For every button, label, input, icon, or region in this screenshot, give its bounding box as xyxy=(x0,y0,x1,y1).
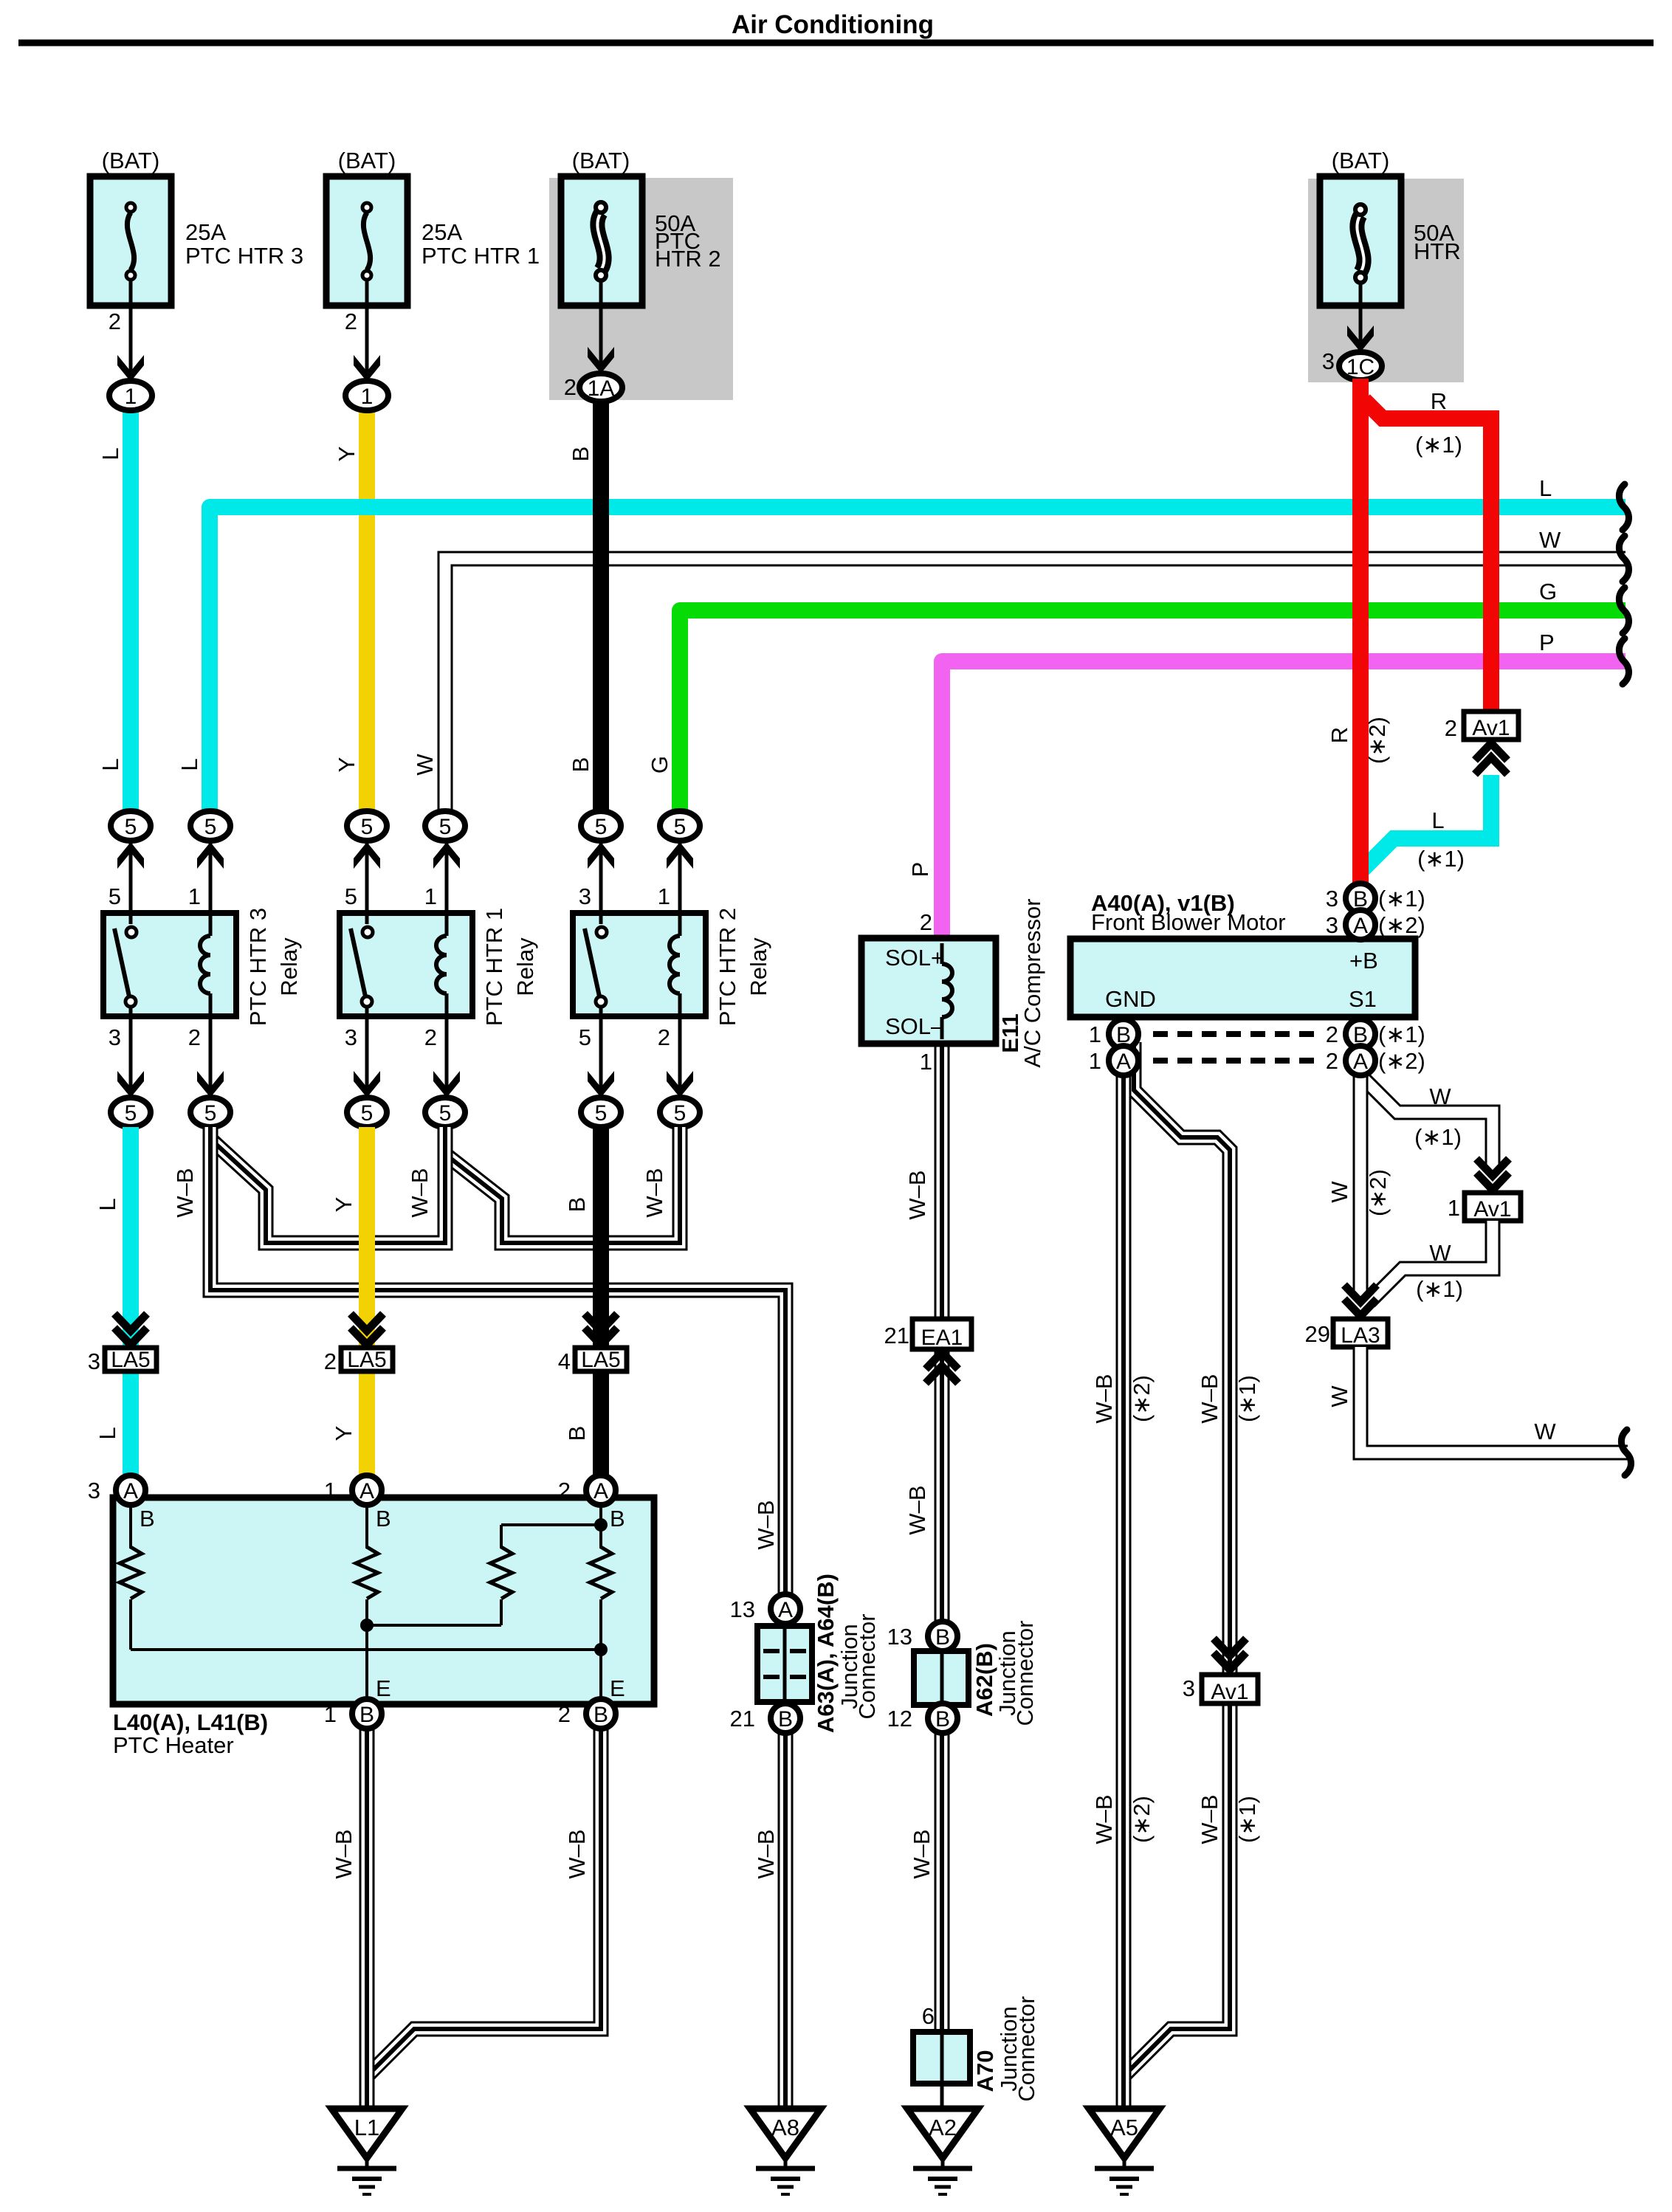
svg-text:W–B: W–B xyxy=(331,1829,357,1878)
dashed link GND A to S1 A xyxy=(1153,1058,1320,1064)
junction connector A62(B) xyxy=(914,1651,969,1705)
svg-text:B: B xyxy=(778,1707,793,1732)
svg-text:(∗1): (∗1) xyxy=(1414,1124,1462,1150)
svg-text:1: 1 xyxy=(424,883,437,909)
svg-text:(∗2): (∗2) xyxy=(1364,717,1390,764)
PTC heater resistor R3 xyxy=(490,1547,512,1599)
svg-text:W–B: W–B xyxy=(1091,1374,1117,1423)
connector 1 Av1 xyxy=(1476,1159,1509,1176)
svg-text:PTC HTR 3: PTC HTR 3 xyxy=(185,243,303,269)
svg-text:5: 5 xyxy=(125,1101,137,1126)
svg-text:21: 21 xyxy=(884,1323,909,1348)
svg-text:1: 1 xyxy=(1089,1021,1101,1047)
svg-text:(BAT): (BAT) xyxy=(1332,148,1390,173)
svg-text:W–B: W–B xyxy=(909,1829,935,1878)
svg-text:L: L xyxy=(94,1198,120,1210)
svg-text:2: 2 xyxy=(564,374,577,400)
svg-text:L1: L1 xyxy=(354,2115,379,2140)
junction connector A63(A), A64(B) xyxy=(757,1626,812,1702)
svg-text:A2: A2 xyxy=(929,2115,957,2140)
svg-text:3: 3 xyxy=(1326,912,1338,938)
svg-text:(∗2): (∗2) xyxy=(1378,1048,1425,1074)
svg-text:5: 5 xyxy=(439,1101,452,1126)
svg-text:3: 3 xyxy=(579,883,591,909)
svg-text:3: 3 xyxy=(109,1024,121,1050)
connector 5 above relay column x=814 xyxy=(581,811,621,841)
svg-text:E: E xyxy=(376,1675,391,1701)
svg-text:5: 5 xyxy=(579,1024,591,1050)
svg-text:6: 6 xyxy=(922,2003,935,2029)
svg-text:5: 5 xyxy=(361,815,374,839)
svg-text:5: 5 xyxy=(674,815,687,839)
svg-text:(∗1): (∗1) xyxy=(1415,432,1462,458)
svg-text:A: A xyxy=(778,1598,793,1622)
svg-text:B: B xyxy=(935,1625,950,1650)
svg-text:W: W xyxy=(1327,1385,1352,1408)
svg-text:PTC HTR 1: PTC HTR 1 xyxy=(422,243,540,269)
svg-text:5: 5 xyxy=(595,1101,608,1126)
svg-text:13: 13 xyxy=(730,1596,755,1622)
svg-text:2: 2 xyxy=(345,309,357,334)
connector 4 LA5 xyxy=(585,1314,617,1331)
svg-text:2: 2 xyxy=(558,1478,571,1503)
connector 1 below fuse 25A PTC HTR 1 xyxy=(345,381,388,410)
wire: white W bus horizontal with corner down to relay PTC HTR 1 pin1 column xyxy=(445,559,1625,815)
svg-text:W–B: W–B xyxy=(564,1829,590,1878)
ground A2 xyxy=(907,2109,978,2158)
svg-text:(∗1): (∗1) xyxy=(1417,846,1465,872)
fuse 25A PTC HTR 3 xyxy=(90,148,303,306)
svg-text:(BAT): (BAT) xyxy=(572,148,630,173)
ground L1 xyxy=(331,2109,402,2158)
svg-text:W: W xyxy=(1429,1083,1451,1109)
svg-text:A: A xyxy=(1353,1050,1368,1074)
svg-text:5: 5 xyxy=(345,883,357,909)
wire: cyan L vertical from fuse PTC HTR 3 down to relay row xyxy=(123,407,139,815)
svg-text:P: P xyxy=(1539,630,1555,655)
gray panel behind 50A HTR fuse xyxy=(1308,179,1464,382)
svg-text:2: 2 xyxy=(324,1348,337,1374)
svg-text:W–B: W–B xyxy=(753,1500,779,1549)
svg-text:5: 5 xyxy=(439,815,452,839)
svg-text:(BAT): (BAT) xyxy=(338,148,396,173)
svg-text:SOL–: SOL– xyxy=(885,1013,944,1039)
connector 5 above relay column x=603 xyxy=(425,811,465,841)
svg-text:5: 5 xyxy=(125,815,137,839)
wire: W-B from PTC heater pin 1B to ground L1 xyxy=(359,1729,375,2109)
front blower motor A40(A), v1(B) box xyxy=(1070,939,1415,1017)
wire: black B from relay2 to PTC heater pin 2A xyxy=(593,1127,609,1480)
svg-text:A70: A70 xyxy=(972,2050,998,2092)
svg-text:2: 2 xyxy=(424,1024,437,1050)
svg-text:(∗1): (∗1) xyxy=(1378,886,1425,912)
connector 5 above relay column x=285 xyxy=(190,811,230,841)
svg-text:W–B: W–B xyxy=(753,1829,779,1878)
svg-text:W: W xyxy=(1429,1240,1451,1266)
wire: cyan L from relay3 to PTC heater pin 3A xyxy=(123,1127,139,1480)
wire: W-B from relay PTC HTR 3 pin2 down and right to junction A63 xyxy=(210,1127,785,1613)
svg-text:3: 3 xyxy=(1183,1675,1195,1701)
connector 1A below fuse 50A PTC HTR 2 xyxy=(579,373,622,402)
wire: W (*1) from blower S1 pin 2B to Av1 pin1 xyxy=(1364,1079,1493,1174)
svg-text:3: 3 xyxy=(88,1478,100,1503)
svg-text:B: B xyxy=(359,1703,374,1727)
gray panel behind 50A PTC HTR 2 fuse xyxy=(549,178,733,400)
svg-text:A62(B): A62(B) xyxy=(971,1643,997,1717)
connector 5 above relay column x=497 xyxy=(347,811,387,841)
PTC heater resistor R4 xyxy=(590,1547,612,1599)
svg-text:L: L xyxy=(94,1427,120,1439)
svg-text:PTC HTR 3: PTC HTR 3 xyxy=(245,908,271,1026)
wire: cyan L bus horizontal with corner down to relay PTC HTR 3 pin1 column xyxy=(210,507,1625,815)
svg-text:13: 13 xyxy=(887,1624,912,1650)
connector 5 below relay column x=603 xyxy=(425,1098,465,1127)
svg-text:Y: Y xyxy=(331,1197,357,1213)
svg-text:W: W xyxy=(1539,527,1561,553)
svg-text:1A: 1A xyxy=(588,376,615,401)
svg-text:25A: 25A xyxy=(422,219,462,245)
A/C compressor E11 box xyxy=(861,938,996,1044)
svg-text:G: G xyxy=(1539,579,1557,604)
wire: W-B from relay PTC HTR 1 pin2 to relay3 coil column xyxy=(213,1127,445,1243)
connector 2 Av1 (top right) xyxy=(1475,757,1507,774)
connector 21 EA1 xyxy=(912,1319,971,1349)
svg-text:A: A xyxy=(594,1479,608,1503)
svg-text:W–B: W–B xyxy=(1197,1794,1222,1844)
connector 5 above relay column x=177 xyxy=(111,811,151,841)
svg-text:Relay: Relay xyxy=(512,937,538,996)
svg-text:Air Conditioning: Air Conditioning xyxy=(732,10,934,39)
svg-text:2: 2 xyxy=(1326,1048,1338,1074)
svg-text:W: W xyxy=(412,754,438,776)
svg-text:25A: 25A xyxy=(185,219,226,245)
svg-text:LA5: LA5 xyxy=(347,1348,386,1372)
wire from fuse 25A PTC HTR 1 to connector xyxy=(365,280,369,382)
wire: W (*2) from blower S1 pin 2A to LA3 xyxy=(1353,1074,1369,1299)
svg-text:Y: Y xyxy=(331,1426,357,1441)
svg-text:E: E xyxy=(610,1675,625,1701)
wire: W-B from junction A63 to ground A8 xyxy=(778,1705,794,2109)
svg-text:L40(A), L41(B): L40(A), L41(B) xyxy=(113,1709,268,1735)
svg-text:B: B xyxy=(568,447,594,462)
fuse 25A PTC HTR 1 xyxy=(326,148,540,306)
svg-text:A: A xyxy=(359,1479,374,1503)
svg-text:2: 2 xyxy=(558,1701,571,1727)
svg-text:G: G xyxy=(647,756,672,773)
wire: W-B (*2) from blower GND pin 1A to ground A5 xyxy=(1116,1074,1132,2109)
svg-text:(∗2): (∗2) xyxy=(1378,912,1425,938)
arrows at relay PTC HTR 3 pins xyxy=(117,842,144,869)
wire: yellow Y from relay1 to PTC heater pin 1A xyxy=(359,1127,375,1480)
svg-text:B: B xyxy=(140,1506,155,1531)
break squiggle on white W bus xyxy=(1619,536,1628,582)
svg-text:12: 12 xyxy=(887,1706,912,1732)
svg-text:Av1: Av1 xyxy=(1473,1197,1511,1222)
connector 5 below relay column x=814 xyxy=(581,1098,621,1127)
svg-text:A: A xyxy=(1353,914,1368,938)
svg-text:5: 5 xyxy=(361,1101,374,1126)
svg-text:1: 1 xyxy=(1089,1048,1101,1074)
svg-text:S1: S1 xyxy=(1349,986,1377,1012)
svg-text:W: W xyxy=(1327,1181,1352,1203)
svg-text:Front Blower Motor: Front Blower Motor xyxy=(1091,909,1286,935)
wire: cyan L (*1) from Av1 pin2 joining red wire xyxy=(1363,775,1491,869)
svg-text:LA5: LA5 xyxy=(581,1348,620,1372)
svg-text:W–B: W–B xyxy=(1091,1794,1117,1844)
svg-text:Relay: Relay xyxy=(276,937,302,996)
svg-text:A8: A8 xyxy=(771,2115,799,2140)
wire: magenta P bus horizontal with corner down to A/C compressor SOL+ xyxy=(942,661,1625,941)
svg-text:LA3: LA3 xyxy=(1341,1323,1380,1348)
wire: black B vertical from fuse PTC HTR 2 down to relay row xyxy=(593,399,609,815)
arrows at relay PTC HTR 2 pins xyxy=(588,842,614,869)
svg-text:2: 2 xyxy=(109,309,121,334)
connector 5 below relay column x=921 xyxy=(660,1098,700,1127)
break squiggle on magenta P bus xyxy=(1619,638,1628,684)
svg-text:L: L xyxy=(176,758,202,771)
svg-text:(∗2): (∗2) xyxy=(1129,1375,1155,1422)
svg-text:5: 5 xyxy=(109,883,121,909)
dashed link GND B to S1 B xyxy=(1153,1031,1320,1037)
relay PTC HTR 2 xyxy=(573,842,706,1098)
svg-text:Connector: Connector xyxy=(1012,1620,1038,1726)
svg-text:1: 1 xyxy=(1448,1195,1460,1221)
wire from fuse 50A PTC HTR 2 to connector xyxy=(599,280,603,373)
connector 5 below relay column x=177 xyxy=(111,1098,151,1127)
wire: W (*1) from Av1 pin1 back to S1 wire xyxy=(1369,1221,1493,1302)
connector 5 below relay column x=285 xyxy=(190,1098,230,1127)
PTC heater internal wiring xyxy=(131,1505,608,1704)
svg-text:4: 4 xyxy=(558,1348,571,1374)
svg-text:B: B xyxy=(594,1703,608,1727)
svg-text:(∗1): (∗1) xyxy=(1378,1021,1425,1047)
svg-text:+B: +B xyxy=(1349,948,1378,974)
wire: red R (*1) branch from 1C to Av1 pin2 xyxy=(1364,400,1491,720)
connector 3 LA5 xyxy=(114,1314,147,1331)
svg-text:3: 3 xyxy=(1326,886,1338,912)
svg-text:Y: Y xyxy=(334,757,359,773)
connector 3 Av1 xyxy=(1214,1639,1246,1655)
svg-text:(BAT): (BAT) xyxy=(102,148,160,173)
connector 1C below fuse 50A HTR xyxy=(1339,352,1382,380)
svg-text:Y: Y xyxy=(334,447,359,462)
svg-text:L: L xyxy=(1431,807,1444,833)
svg-text:SOL+: SOL+ xyxy=(885,945,944,971)
svg-text:3: 3 xyxy=(1322,348,1335,374)
svg-text:A5: A5 xyxy=(1110,2115,1138,2140)
svg-text:3: 3 xyxy=(345,1024,357,1050)
svg-text:W: W xyxy=(1534,1419,1556,1444)
break squiggle on bottom W wire xyxy=(1621,1430,1631,1475)
svg-text:W–B: W–B xyxy=(1197,1374,1222,1423)
svg-text:PTC HTR 2: PTC HTR 2 xyxy=(715,908,740,1026)
svg-text:GND: GND xyxy=(1105,986,1156,1012)
svg-text:W–B: W–B xyxy=(172,1168,198,1217)
wire: W-B from relay PTC HTR 2 pin2 to relay1 coil column xyxy=(447,1127,680,1243)
fuse 50A HTR xyxy=(1320,148,1461,306)
svg-text:1: 1 xyxy=(920,1049,932,1075)
svg-text:1: 1 xyxy=(324,1701,337,1727)
svg-text:1C: 1C xyxy=(1346,355,1375,379)
svg-text:(∗2): (∗2) xyxy=(1129,1796,1155,1843)
svg-text:Relay: Relay xyxy=(746,937,771,996)
wire: W-B from PTC heater pin 2B jog left to ground L1 xyxy=(367,1729,601,2076)
svg-text:5: 5 xyxy=(204,815,217,839)
break squiggle on cyan L bus xyxy=(1619,484,1628,530)
wire: W-B from A/C compressor SOL- to ground A2 xyxy=(935,1041,950,2058)
relay PTC HTR 3 xyxy=(103,842,236,1098)
relay PTC HTR 1 xyxy=(340,842,472,1098)
ground A5 xyxy=(1089,2109,1160,2158)
svg-text:2: 2 xyxy=(1326,1021,1338,1047)
fuse 50A PTC HTR 2 xyxy=(561,148,721,306)
svg-text:(∗1): (∗1) xyxy=(1416,1276,1463,1302)
connector 5 above relay column x=921 xyxy=(660,811,700,841)
svg-text:HTR: HTR xyxy=(1414,238,1461,264)
svg-text:L: L xyxy=(97,758,123,771)
svg-text:B: B xyxy=(564,1426,590,1441)
svg-text:L: L xyxy=(97,447,123,460)
svg-text:(∗1): (∗1) xyxy=(1234,1796,1260,1843)
svg-text:LA5: LA5 xyxy=(111,1348,150,1372)
svg-text:3: 3 xyxy=(88,1348,100,1374)
svg-text:Av1: Av1 xyxy=(1472,716,1510,740)
wire: W from LA3 to right edge xyxy=(1360,1347,1628,1453)
svg-text:2: 2 xyxy=(188,1024,201,1050)
svg-text:1: 1 xyxy=(658,883,670,909)
svg-text:1: 1 xyxy=(188,883,201,909)
svg-text:21: 21 xyxy=(730,1706,755,1732)
connector 29 LA3 xyxy=(1344,1285,1377,1302)
PTC heater L40(A), L41(B) box xyxy=(113,1498,654,1704)
svg-text:A63(A), A64(B): A63(A), A64(B) xyxy=(813,1574,839,1733)
svg-text:(∗1): (∗1) xyxy=(1234,1375,1260,1422)
svg-text:Av1: Av1 xyxy=(1211,1680,1248,1704)
svg-text:W–B: W–B xyxy=(904,1170,930,1219)
svg-text:PTC HTR 1: PTC HTR 1 xyxy=(481,908,507,1026)
svg-text:(∗2): (∗2) xyxy=(1365,1169,1391,1216)
svg-text:1: 1 xyxy=(324,1478,337,1503)
ground A8 xyxy=(750,2109,821,2158)
wire: red R (*2) vertical from 1C to blower +B pin 3B xyxy=(1352,379,1369,886)
wire: W-B (*1) from blower GND pin 1B via Av1 pin3 to ground A5 xyxy=(1124,1042,1230,2076)
svg-text:R: R xyxy=(1327,727,1352,743)
svg-text:2: 2 xyxy=(920,909,932,935)
svg-text:A/C Compressor: A/C Compressor xyxy=(1019,898,1045,1067)
svg-text:A: A xyxy=(123,1479,138,1503)
wire from fuse 50A HTR to connector xyxy=(1359,280,1363,352)
svg-text:B: B xyxy=(376,1506,391,1531)
svg-text:5: 5 xyxy=(595,815,608,839)
svg-text:B: B xyxy=(935,1707,950,1732)
svg-text:B: B xyxy=(610,1506,625,1531)
connector 5 below relay column x=497 xyxy=(347,1098,387,1127)
svg-text:5: 5 xyxy=(674,1101,687,1126)
break squiggle on green G bus xyxy=(1619,588,1628,633)
wire: green G bus horizontal with corner down to relay PTC HTR 2 pin1 column xyxy=(680,610,1625,815)
svg-text:1: 1 xyxy=(361,385,374,409)
connector 2 LA5 xyxy=(351,1314,383,1331)
svg-text:HTR 2: HTR 2 xyxy=(655,246,721,272)
svg-text:W–B: W–B xyxy=(904,1485,930,1534)
wire from junction A70 to ground A2 xyxy=(940,2084,944,2109)
svg-text:B: B xyxy=(568,757,594,773)
svg-text:5: 5 xyxy=(204,1101,217,1126)
svg-text:A: A xyxy=(1116,1050,1131,1074)
wire from fuse 25A PTC HTR 3 to connector xyxy=(129,280,133,382)
svg-text:Connector: Connector xyxy=(1014,1996,1039,2101)
svg-text:2: 2 xyxy=(658,1024,670,1050)
PTC heater resistor R1 xyxy=(120,1547,142,1599)
svg-text:29: 29 xyxy=(1305,1321,1330,1347)
svg-text:1: 1 xyxy=(125,385,137,409)
wire: yellow Y vertical from fuse PTC HTR 1 down to relay row xyxy=(359,407,375,815)
svg-text:PTC Heater: PTC Heater xyxy=(113,1732,234,1758)
svg-text:B: B xyxy=(564,1197,590,1213)
arrows at relay PTC HTR 1 pins xyxy=(354,842,380,869)
connector 1 below fuse 25A PTC HTR 3 xyxy=(109,381,152,410)
svg-text:W–B: W–B xyxy=(641,1168,667,1217)
svg-text:R: R xyxy=(1431,388,1447,414)
svg-text:Connector: Connector xyxy=(854,1613,880,1719)
junction connector A70 xyxy=(913,2032,970,2084)
svg-text:L: L xyxy=(1539,475,1552,501)
PTC heater resistor R2 xyxy=(356,1547,378,1599)
svg-text:P: P xyxy=(907,862,933,878)
svg-text:2: 2 xyxy=(1445,715,1457,741)
svg-text:W–B: W–B xyxy=(407,1168,433,1217)
title rule xyxy=(18,40,1654,46)
